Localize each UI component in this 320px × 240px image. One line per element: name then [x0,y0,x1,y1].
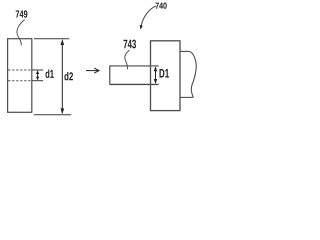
flange top edge [180,50,189,52]
d1 extension line upper [32,69,43,71]
D1 dimension arrow [154,66,157,84]
label D1 [160,69,170,78]
d1 dimension arrow [36,70,39,80]
label 740 [156,3,167,9]
tab 743 left edge [109,65,111,85]
d2 extension line top [34,38,69,40]
plate rectangle 749 [8,39,32,113]
label d2 [64,72,73,80]
tab 743 top edge [110,65,159,67]
leader line for 743 [125,50,130,69]
leader arrow for 740 [140,6,156,30]
label 743 [124,40,136,49]
flange wavy break edge [189,51,196,97]
transform arrow [86,68,99,73]
d2 extension line bottom [34,114,72,116]
flange bottom edge [180,96,193,98]
body rectangle 740 [151,41,181,111]
dashed line lower [8,80,32,82]
label 749 [16,10,28,17]
label d1 [46,70,54,79]
tab 743 bottom edge [110,83,159,85]
dashed line upper [8,69,32,71]
d2 dimension arrow [61,39,65,114]
leader line for 749 [17,20,25,46]
d1 extension line lower [32,80,43,82]
